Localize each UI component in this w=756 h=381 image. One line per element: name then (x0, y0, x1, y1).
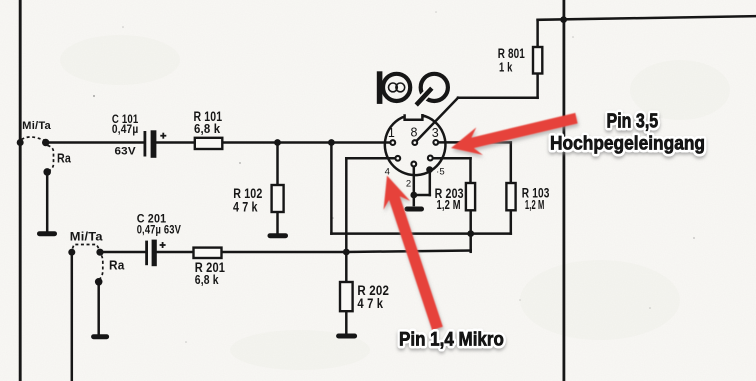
svg-text:Pin 3,5: Pin 3,5 (607, 111, 659, 133)
svg-text:1,2 M: 1,2 M (437, 198, 461, 212)
svg-text:6,8 k: 6,8 k (195, 273, 220, 287)
svg-text:4 7 k: 4 7 k (233, 200, 258, 215)
svg-text:3: 3 (432, 126, 439, 140)
svg-text:Ra: Ra (109, 258, 125, 272)
svg-text:Ra: Ra (57, 151, 72, 165)
svg-text:Mi/Ta: Mi/Ta (70, 231, 103, 244)
svg-text:2: 2 (406, 179, 411, 190)
svg-text:4: 4 (385, 166, 390, 177)
svg-text:63V: 63V (115, 145, 137, 157)
svg-text:8: 8 (411, 126, 418, 140)
svg-text:1 k: 1 k (499, 60, 513, 75)
svg-text:R 102: R 102 (233, 186, 262, 201)
svg-text:Mi/Ta: Mi/Ta (22, 120, 51, 132)
svg-text:4 7 k: 4 7 k (357, 296, 383, 311)
svg-text:1: 1 (388, 126, 395, 140)
svg-text:0,47µ: 0,47µ (112, 122, 138, 136)
svg-text:·5: ·5 (436, 166, 444, 177)
svg-text:0,47µ 63V: 0,47µ 63V (137, 223, 181, 237)
svg-text:Hochpegeleingang: Hochpegeleingang (550, 133, 705, 155)
svg-text:6,8 k: 6,8 k (194, 122, 221, 136)
svg-text:1,2 M: 1,2 M (525, 198, 545, 212)
svg-text:Pin 1,4 Mikro: Pin 1,4 Mikro (399, 328, 504, 350)
